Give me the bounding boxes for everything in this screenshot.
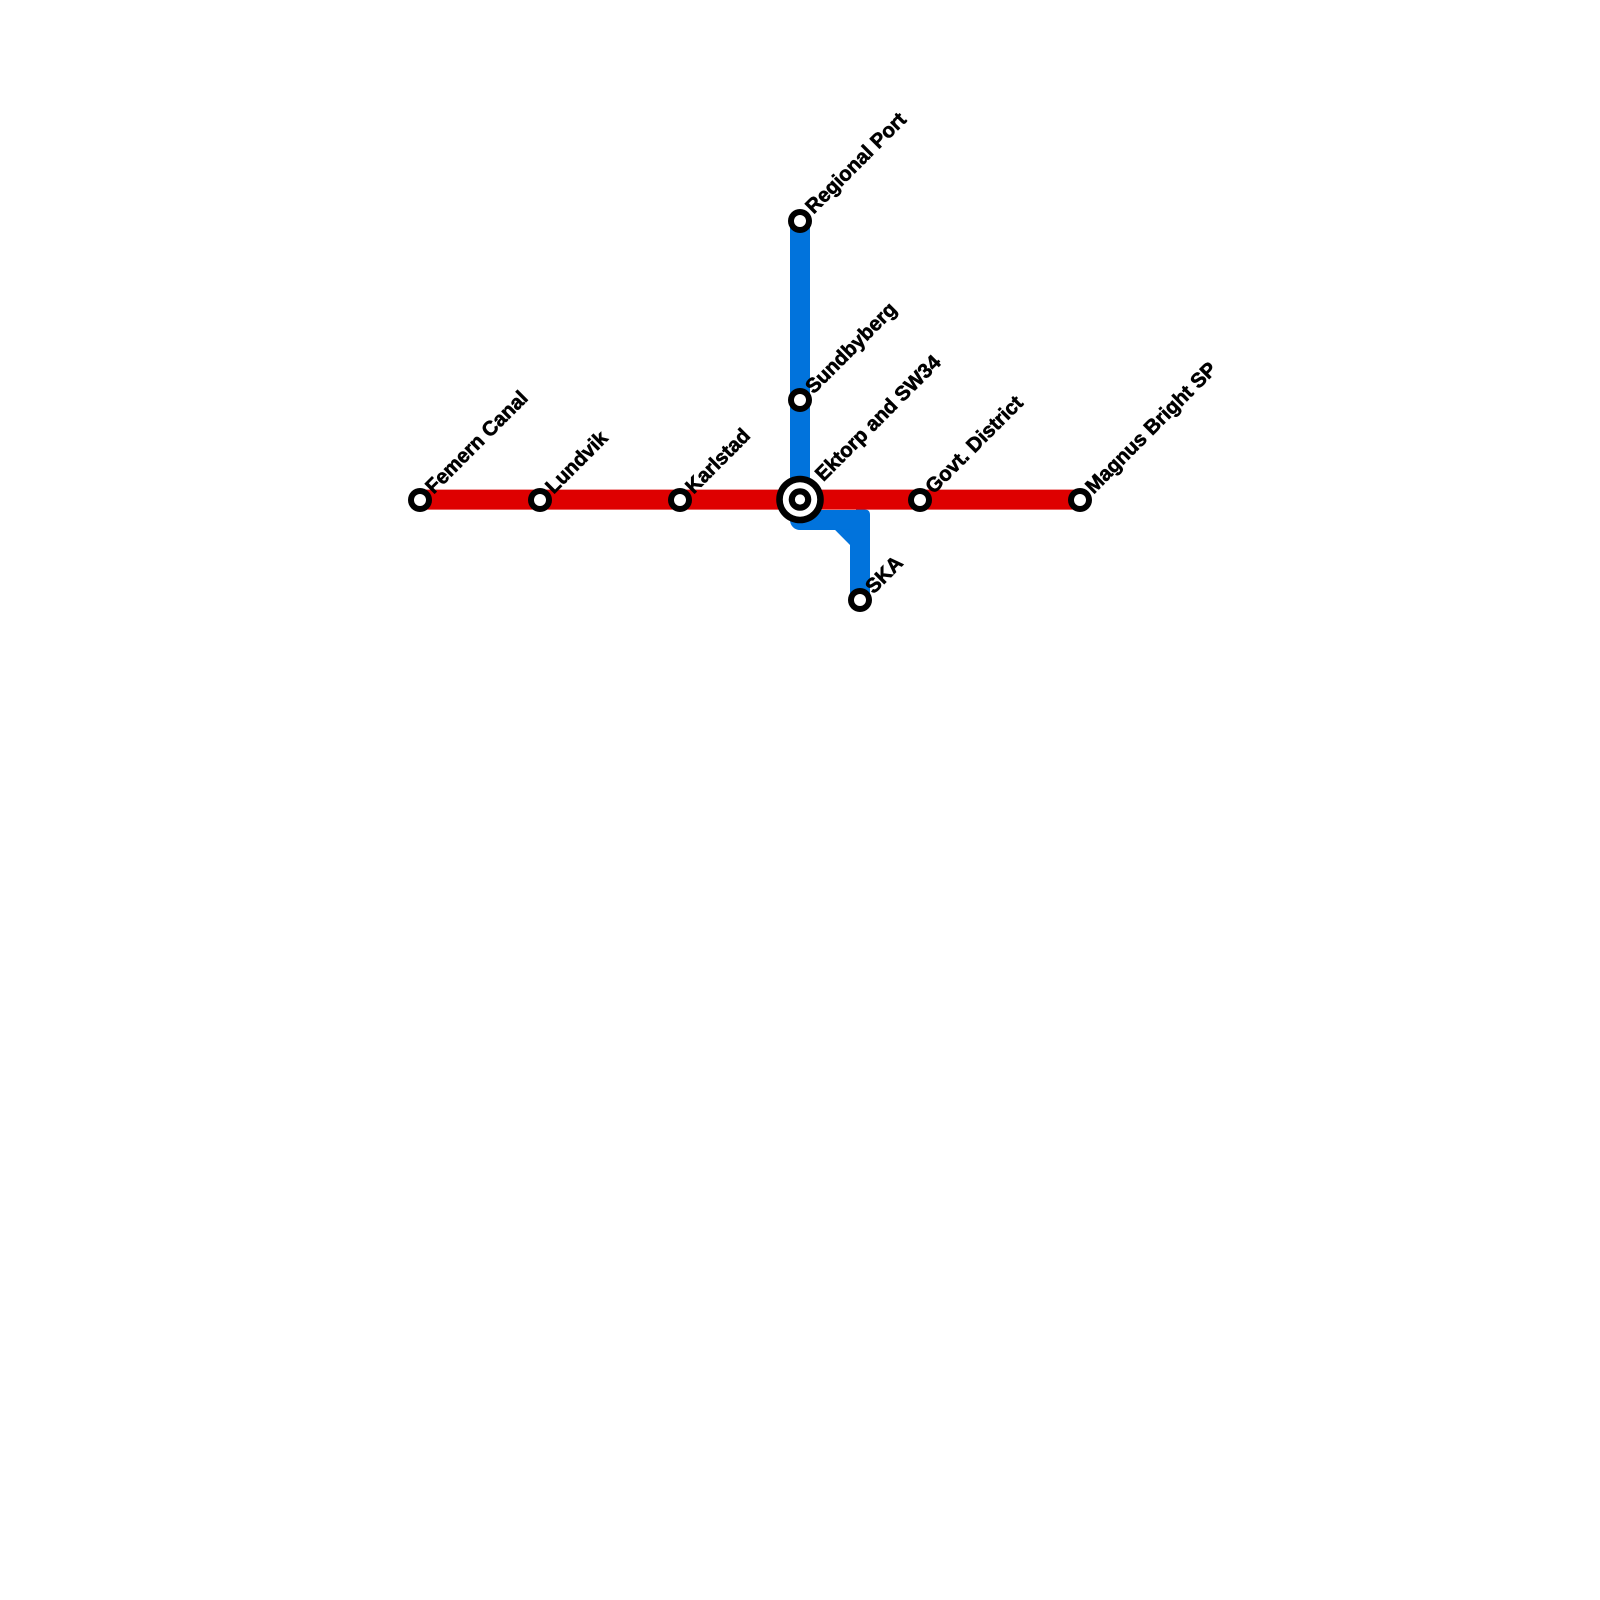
label Sundbyberg [802,298,902,398]
blue line branch outer corner squaring [856,510,870,524]
station Govt. District [908,488,932,512]
label Ektorp and SW34 [811,351,946,486]
station Femern Canal [408,488,432,512]
red line: Femern Canal to Magnus Bright SP [415,490,1085,510]
station Karlstad [668,488,692,512]
label Govt. District [922,392,1028,498]
station Magnus Bright SP [1068,488,1092,512]
blue line main: Regional Port to Ektorp [790,216,810,500]
label Lundvik [542,427,613,498]
label Magnus Bright SP [1082,358,1222,498]
label Karlstad [682,425,755,498]
station SKA [848,588,872,612]
station Sundbyberg [788,388,812,412]
label SKA [862,552,908,598]
station Regional Port [788,209,812,233]
interchange station Ektorp and SW34 [776,476,824,524]
blue line branch: Ektorp to SKA [800,500,860,605]
blue line branch chamfer [835,530,850,545]
station Lundvik [528,488,552,512]
label Femern Canal [422,387,533,498]
label Regional Port [802,109,911,218]
